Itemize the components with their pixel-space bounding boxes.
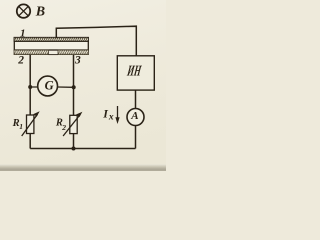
- svg-text:1: 1: [19, 122, 23, 131]
- label IN: [126, 64, 143, 80]
- svg-text:x: x: [108, 113, 114, 123]
- node dot right: [72, 85, 76, 89]
- gap bottom line: [49, 54, 59, 56]
- resistor R1: [27, 115, 34, 134]
- galvanometer G: [38, 76, 58, 96]
- R1 arrow: [22, 111, 40, 136]
- IN box: [117, 56, 154, 90]
- R2 arrow: [63, 112, 82, 136]
- svg-text:2: 2: [61, 123, 66, 132]
- wire R1 bottom to rail: [29, 134, 31, 149]
- wire: specimen top to IN box: [56, 26, 136, 56]
- svg-text:3: 3: [74, 54, 81, 66]
- Ix arrow: [115, 106, 119, 124]
- ammeter A: [127, 109, 144, 126]
- node dot left: [28, 85, 32, 89]
- svg-text:A: A: [130, 110, 138, 122]
- galvanometer branch wires: [30, 86, 73, 88]
- paper background: [0, 0, 166, 171]
- svg-text:2: 2: [17, 54, 24, 66]
- paper bottom shadow: [0, 164, 166, 171]
- resistor R2: [70, 115, 77, 133]
- lamp B symbol: [17, 4, 30, 17]
- left branch wire (terminal 2 down to R1): [29, 55, 31, 115]
- wire: IN box to ammeter: [135, 90, 137, 108]
- wire R2 bottom to rail: [73, 134, 75, 149]
- right branch wire (terminal 3 down to R2): [73, 55, 75, 115]
- specimen body rectangle: [14, 41, 88, 50]
- node dot rail/R2: [72, 147, 76, 151]
- svg-text:G: G: [45, 79, 54, 93]
- bottom rail: [30, 148, 135, 150]
- specimen top hatched strip: [14, 37, 89, 41]
- bottom contact left (hatched): [14, 50, 49, 55]
- svg-text:В: В: [35, 5, 45, 20]
- bottom contact right (hatched): [58, 50, 89, 55]
- wire: ammeter to bottom rail: [135, 126, 137, 149]
